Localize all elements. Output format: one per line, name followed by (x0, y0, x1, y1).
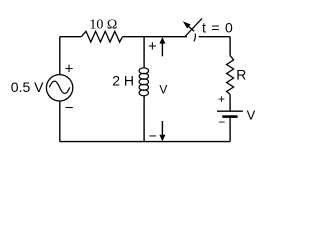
svg-text:V: V (247, 107, 256, 122)
wire left lower (source to bottom) (59, 101, 61, 142)
wire right upper (to resistor R) (229, 37, 231, 56)
battery V negative plate (short thick) (222, 115, 237, 118)
wire right lower (battery to bottom) (229, 118, 231, 142)
switch S1 opening arrow (183, 21, 194, 31)
resistor R (right vertical zigzag) (227, 56, 234, 95)
svg-text:+: + (148, 38, 157, 55)
svg-text:2 H: 2 H (112, 72, 134, 88)
switch S1 blade (185, 18, 202, 36)
wire bottom (60, 141, 230, 143)
voltage reference arrow down (159, 121, 165, 141)
wire top-right segment (199, 36, 230, 38)
svg-text:t = 0: t = 0 (202, 20, 234, 36)
svg-text:0.5 V: 0.5 V (11, 79, 44, 95)
switch S1 stationary contact arc (194, 34, 196, 42)
svg-text:10 Ω: 10 Ω (89, 17, 117, 32)
svg-text:−: − (218, 115, 225, 129)
svg-text:−: − (65, 100, 74, 117)
svg-text:−: − (149, 127, 157, 143)
resistor R1 10 Ω (top zigzag) (81, 31, 122, 42)
wire right middle (resistor to battery) (229, 94, 231, 110)
wire top-left segment (60, 36, 82, 38)
voltage reference arrow up (159, 37, 165, 56)
wire middle lower (inductor to bottom) (143, 96, 145, 142)
svg-text:+: + (218, 92, 225, 106)
svg-text:V: V (159, 83, 167, 97)
voltage source VS circle (0.5 V AC) (46, 75, 72, 101)
wire middle upper (node to inductor) (143, 37, 145, 68)
svg-text:R: R (236, 67, 246, 83)
wire left upper (source to top) (59, 37, 61, 75)
svg-text:+: + (65, 60, 74, 77)
wire top-middle segment (123, 36, 187, 38)
voltage source VS sine wave (49, 81, 69, 93)
inductor L 2 H (coil) (139, 68, 148, 96)
battery V positive plate (long) (217, 110, 243, 112)
